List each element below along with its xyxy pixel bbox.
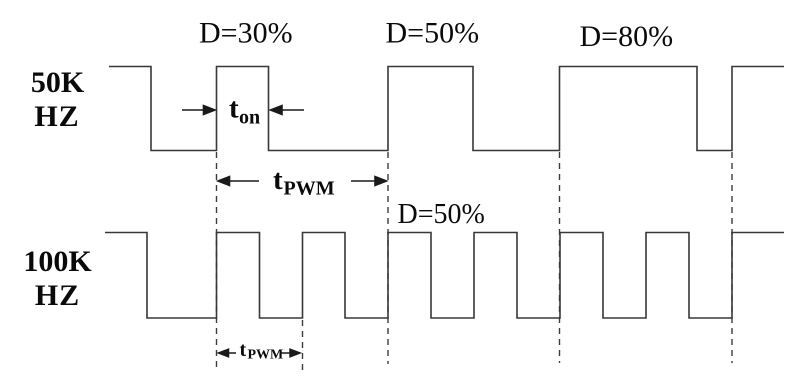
- svg-text:PWM: PWM: [248, 348, 284, 363]
- svg-text:D=30%: D=30%: [199, 17, 293, 50]
- svg-text:100K: 100K: [23, 245, 92, 278]
- svg-text:t: t: [240, 339, 247, 361]
- svg-text:D=80%: D=80%: [580, 20, 674, 53]
- svg-text:HZ: HZ: [35, 279, 80, 312]
- svg-text:D=50%: D=50%: [386, 17, 480, 50]
- svg-text:HZ: HZ: [34, 100, 79, 133]
- svg-text:on: on: [239, 107, 260, 129]
- svg-text:t: t: [273, 164, 283, 196]
- svg-text:D=50%: D=50%: [398, 199, 485, 230]
- svg-text:PWM: PWM: [284, 178, 335, 200]
- svg-text:50K: 50K: [31, 66, 85, 99]
- svg-text:t: t: [229, 93, 239, 125]
